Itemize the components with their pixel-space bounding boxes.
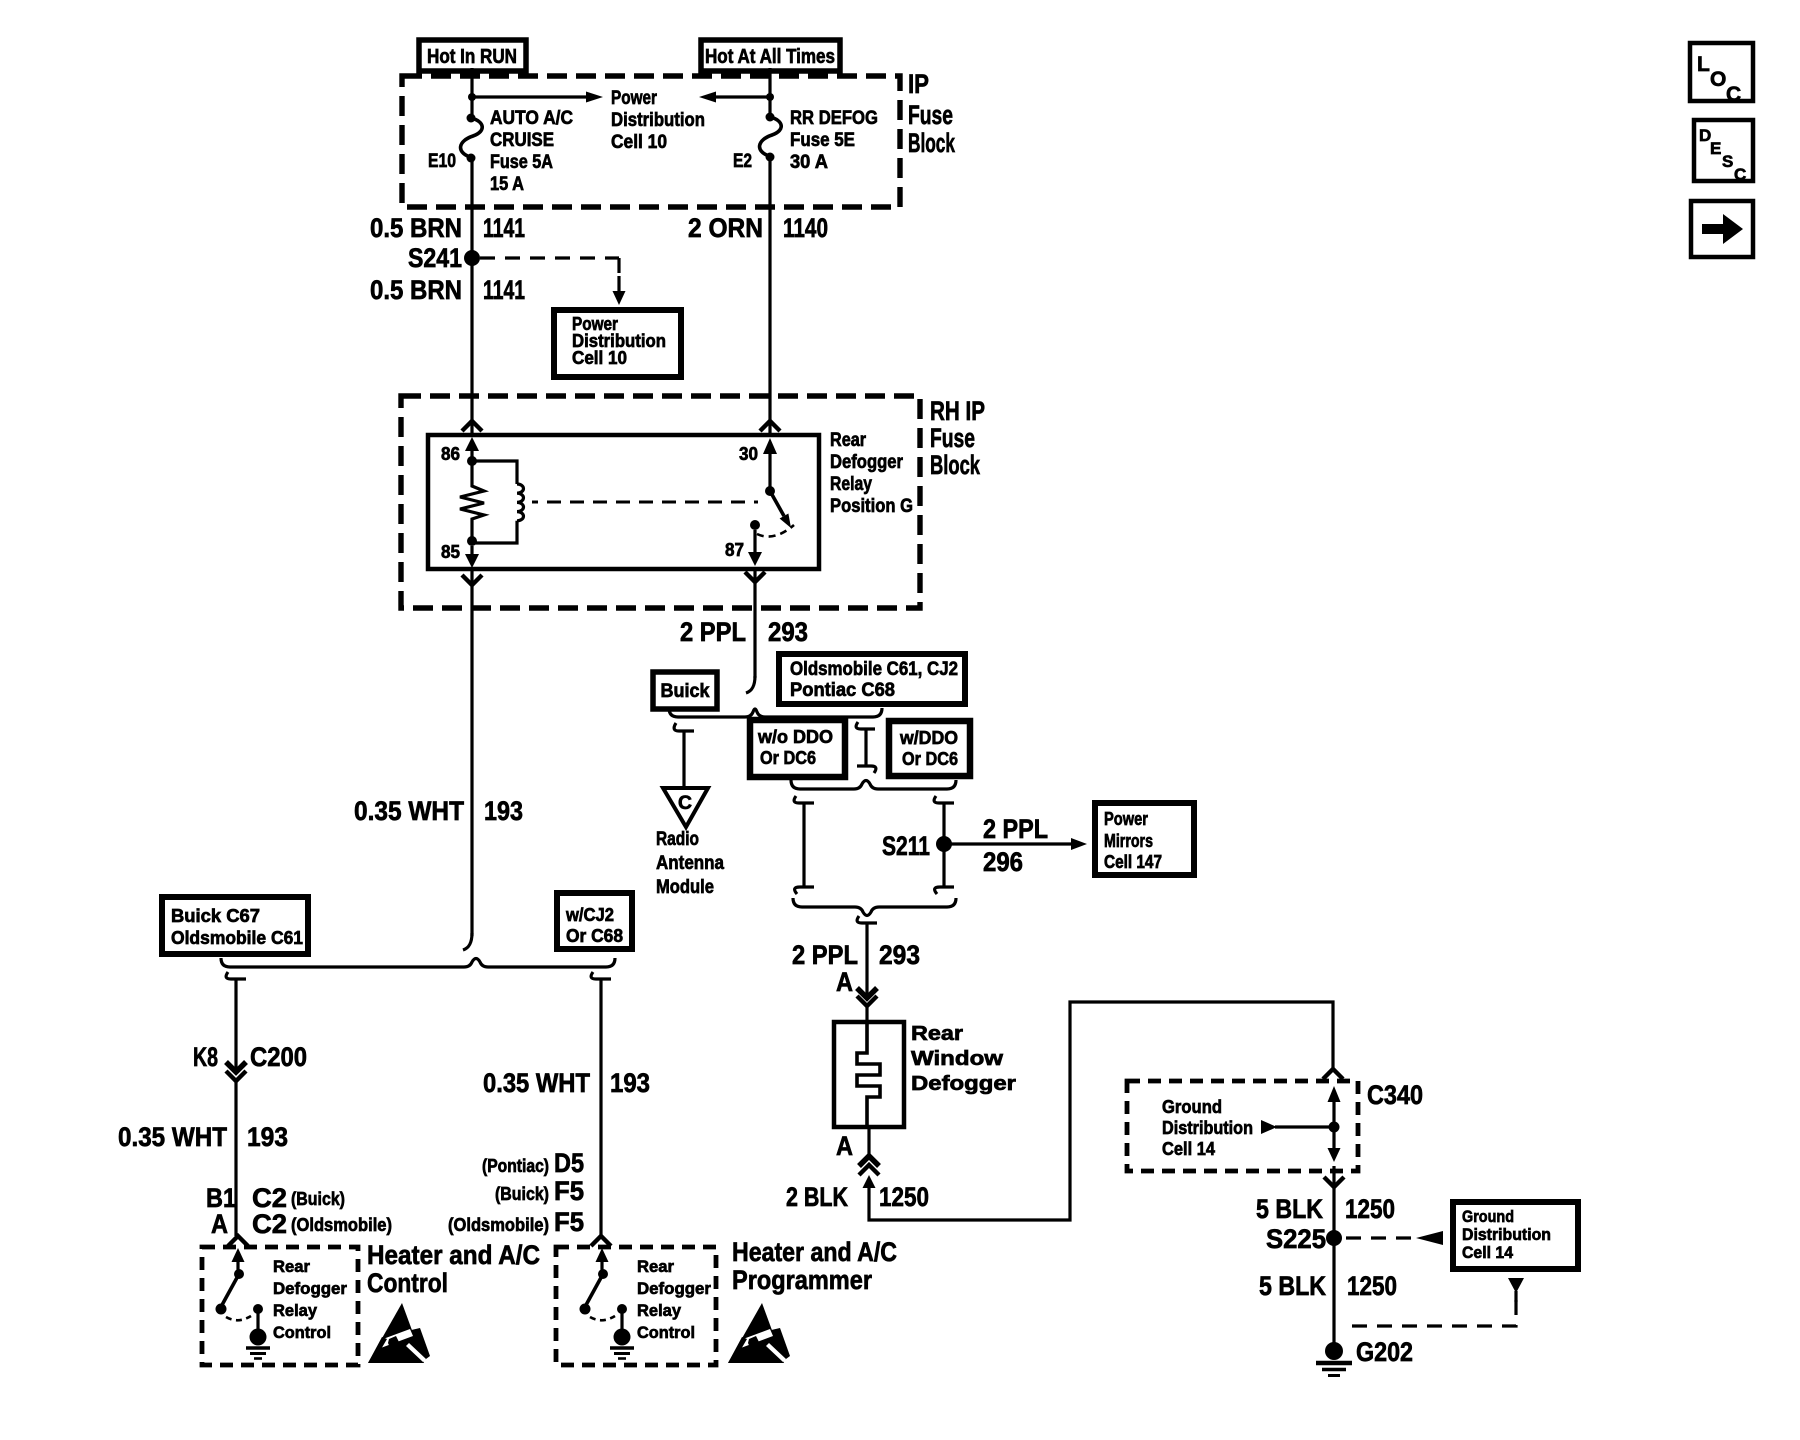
svg-text:Heater and A/C: Heater and A/C	[367, 1240, 540, 1270]
defogger heating element	[857, 1022, 880, 1127]
svg-text:Heater and A/C: Heater and A/C	[732, 1237, 897, 1267]
svg-text:Cell 147: Cell 147	[1104, 852, 1162, 872]
pin 87 terminal arrow	[748, 530, 762, 566]
svg-text:K8: K8	[193, 1042, 218, 1072]
svg-text:193: 193	[484, 796, 523, 826]
svg-text:IP: IP	[908, 69, 929, 99]
svg-text:C2: C2	[252, 1209, 287, 1239]
label 2 PPL 293 (to defogger)	[792, 940, 920, 970]
svg-text:(Oldsmobile): (Oldsmobile)	[448, 1215, 549, 1235]
svg-text:Block: Block	[908, 128, 956, 158]
svg-text:Cell 10: Cell 10	[611, 132, 667, 153]
svg-text:Programmer: Programmer	[732, 1265, 872, 1295]
terminal arrow up (ground wire into defogger)	[863, 1175, 876, 1188]
svg-text:2 ORN: 2 ORN	[688, 213, 763, 243]
label Rear Defogger Relay Position G	[830, 430, 913, 517]
ground distribution Cell 14 dashed box (C340)	[1127, 1081, 1358, 1171]
fuse E2 (RR DEFOG Fuse 5E 30A)	[760, 113, 782, 162]
svg-text:Power: Power	[611, 88, 657, 109]
junction node right	[766, 93, 774, 101]
svg-text:Oldsmobile C61, CJ2: Oldsmobile C61, CJ2	[790, 659, 958, 680]
heater and A/C programmer dashed box	[556, 1247, 716, 1365]
Power Mirrors Cell 147 reference box	[1095, 803, 1194, 875]
label RH IP Fuse Block	[930, 396, 985, 480]
svg-text:Antenna: Antenna	[656, 853, 724, 874]
svg-text:Or DC6: Or DC6	[760, 748, 816, 768]
svg-text:(Buick): (Buick)	[291, 1189, 345, 1209]
label Heater and A/C Control	[367, 1240, 540, 1298]
connector brace C67/C61/C68	[221, 958, 615, 967]
wire Hot In RUN down to fuse E10	[470, 68, 473, 118]
svg-text:Position G: Position G	[830, 496, 913, 517]
splice S225	[1266, 1224, 1342, 1254]
dashed reference wire from S241	[480, 258, 619, 274]
svg-text:w/CJ2: w/CJ2	[565, 905, 614, 925]
wire defogger bottom to connector	[867, 1127, 870, 1157]
svg-text:A: A	[836, 1131, 853, 1161]
svg-text:A: A	[211, 1209, 228, 1239]
chevron connector at relay pin 86	[462, 421, 482, 431]
label IP Fuse Block	[908, 69, 956, 158]
label Rear Defogger Relay Control (right)	[637, 1257, 711, 1342]
svg-text:Hot In RUN: Hot In RUN	[427, 46, 517, 68]
svg-text:Power: Power	[1104, 809, 1148, 829]
svg-text:1250: 1250	[879, 1182, 929, 1212]
Ground Distribution Cell 14 reference box (right)	[1453, 1202, 1578, 1269]
svg-text:86: 86	[441, 444, 460, 464]
radio antenna module terminal C triangle	[663, 788, 708, 827]
svg-text:Distribution: Distribution	[1462, 1225, 1551, 1244]
svg-text:O: O	[1710, 68, 1726, 91]
arrow to Power Distribution Cell 10 (left)	[699, 92, 770, 103]
svg-text:Fuse 5A: Fuse 5A	[490, 152, 553, 173]
svg-text:C340: C340	[1367, 1080, 1423, 1110]
relay switch blade	[770, 491, 791, 528]
w/o DDO variant wire with connector ends	[794, 796, 814, 894]
svg-text:Oldsmobile C61: Oldsmobile C61	[171, 928, 303, 948]
LOC icon box	[1690, 43, 1753, 106]
chevron below C340	[1324, 1177, 1344, 1187]
svg-text:193: 193	[610, 1068, 650, 1098]
svg-text:85: 85	[441, 542, 460, 562]
svg-text:193: 193	[247, 1122, 288, 1152]
connector half left branch	[226, 972, 246, 1040]
svg-text:Distribution: Distribution	[611, 110, 705, 131]
svg-text:Rear: Rear	[911, 1023, 963, 1045]
wire pin 85 down to C67/C61 connector brace	[463, 569, 472, 950]
Power Distribution Cell 10 reference box	[554, 310, 681, 377]
label 0.5 BRN 1141 (below S241)	[370, 275, 525, 305]
label 0.35 WHT 193 (left branch)	[118, 1122, 288, 1152]
relay switch travel dashed arc	[757, 525, 794, 537]
terminal arrow up inside C340	[1328, 1086, 1341, 1127]
svg-text:Rear: Rear	[273, 1257, 310, 1276]
svg-text:0.35 WHT: 0.35 WHT	[483, 1068, 590, 1098]
reference arrow to wire	[1261, 1120, 1329, 1134]
label Ground Distribution Cell 14 (C340 box)	[1162, 1097, 1253, 1159]
junction node C340	[1329, 1122, 1340, 1133]
svg-text:Defogger: Defogger	[637, 1279, 711, 1298]
svg-text:0.35 WHT: 0.35 WHT	[354, 796, 464, 826]
splice S211	[882, 831, 952, 861]
svg-text:2 PPL: 2 PPL	[680, 617, 746, 647]
svg-text:S241: S241	[408, 243, 462, 273]
svg-text:87: 87	[725, 540, 744, 560]
svg-text:Pontiac C68: Pontiac C68	[790, 680, 895, 701]
svg-text:AUTO A/C: AUTO A/C	[490, 108, 573, 129]
chevron below relay pin 87	[745, 572, 765, 582]
svg-text:Control: Control	[273, 1323, 331, 1342]
svg-text:C: C	[678, 793, 692, 814]
label 0.35 WHT 193 (right branch)	[483, 1068, 650, 1098]
svg-text:Rear: Rear	[637, 1257, 674, 1276]
Buick tag box	[653, 672, 717, 709]
IP fuse block dashed box	[402, 76, 900, 207]
svg-text:1141: 1141	[483, 213, 525, 243]
svg-text:S211: S211	[882, 831, 930, 861]
label 2 PPL 296	[983, 814, 1048, 877]
connector half to radio antenna module	[674, 723, 694, 788]
wire pin 87 down to Buick/Olds connector	[746, 569, 755, 693]
svg-text:w/o DDO: w/o DDO	[757, 727, 833, 747]
terminal labels B1 C2 (Buick)	[206, 1183, 345, 1213]
svg-text:1141: 1141	[483, 275, 525, 305]
rear window defogger box	[834, 1022, 904, 1127]
chevron into heater A/C programmer	[591, 1236, 611, 1246]
svg-text:Fuse: Fuse	[908, 100, 953, 130]
svg-text:5 BLK: 5 BLK	[1259, 1271, 1326, 1301]
svg-text:293: 293	[879, 940, 920, 970]
pin 85 terminal arrow	[465, 546, 479, 568]
svg-text:Relay: Relay	[830, 474, 872, 495]
svg-text:(Oldsmobile): (Oldsmobile)	[291, 1215, 392, 1235]
label RR DEFOG Fuse 5E 30 A	[790, 108, 878, 173]
svg-text:F5: F5	[554, 1176, 584, 1206]
label 0.35 WHT 193 (left main wire)	[354, 796, 523, 826]
rear defogger relay box	[428, 435, 819, 569]
svg-text:S: S	[1722, 152, 1733, 171]
label 2 ORN 1140	[688, 213, 828, 243]
arrow to Power Distribution Cell 10 (right)	[472, 92, 603, 103]
svg-text:Relay: Relay	[637, 1301, 682, 1320]
in-line connector C200	[226, 1040, 246, 1236]
svg-text:30: 30	[739, 444, 758, 464]
wire S241 down to relay pin 86	[470, 258, 473, 433]
relay coil (inductor)	[472, 461, 524, 543]
svg-text:Module: Module	[656, 877, 714, 898]
svg-text:Cell 14: Cell 14	[1462, 1243, 1514, 1262]
pin 30 terminal arrow	[763, 438, 777, 491]
connector half below merge brace	[857, 916, 877, 944]
variant merge brace	[793, 898, 956, 916]
svg-text:Fuse: Fuse	[930, 423, 975, 453]
svg-text:CRUISE: CRUISE	[490, 130, 554, 151]
label Heater and A/C Programmer	[732, 1237, 897, 1295]
in-line connector halves between DDO tags	[856, 722, 876, 773]
connector brace C61/C68	[669, 708, 882, 717]
relay resistor	[460, 461, 484, 541]
svg-text:Buick: Buick	[661, 681, 710, 702]
svg-text:0.5 BRN: 0.5 BRN	[370, 275, 462, 305]
wire S211 to Power Mirrors	[944, 838, 1087, 850]
chevron into heater A/C control	[228, 1236, 248, 1246]
svg-text:Block: Block	[930, 450, 981, 480]
svg-text:1250: 1250	[1347, 1271, 1397, 1301]
label 5 BLK 1250 (above S225)	[1256, 1194, 1395, 1224]
Oldsmobile C61 CJ2 / Pontiac C68 tag box	[779, 654, 965, 704]
svg-text:F5: F5	[554, 1207, 584, 1237]
svg-text:C200: C200	[250, 1042, 307, 1072]
connector chevrons below defogger	[859, 1156, 879, 1175]
svg-text:Window: Window	[911, 1048, 1004, 1070]
svg-text:Or C68: Or C68	[566, 926, 623, 946]
svg-text:5 BLK: 5 BLK	[1256, 1194, 1323, 1224]
svg-text:w/DDO: w/DDO	[899, 728, 958, 748]
w/o DDO Or DC6 tag box	[750, 720, 845, 777]
svg-text:296: 296	[983, 847, 1023, 877]
chevron connector C340	[1323, 1069, 1343, 1079]
svg-text:Cell 10: Cell 10	[572, 348, 627, 368]
w/DDO Or DC6 tag box	[889, 721, 970, 776]
svg-text:Control: Control	[367, 1268, 448, 1298]
svg-text:S225: S225	[1266, 1224, 1326, 1254]
reference arrow below ground distribution box	[1508, 1278, 1524, 1302]
label Radio Antenna Module	[656, 829, 724, 898]
RH IP fuse block dashed box	[401, 396, 920, 608]
splice S241	[408, 243, 480, 273]
svg-text:(Buick): (Buick)	[495, 1184, 549, 1204]
Hot At All Times box	[701, 40, 840, 71]
label Rear Defogger Relay Control (left)	[273, 1257, 347, 1342]
dashed reference wire to G202	[1348, 1300, 1516, 1326]
DESC icon box	[1694, 120, 1753, 184]
label 2 BLK 1250	[786, 1182, 929, 1212]
rear defogger relay control switch (heater A/C control)	[216, 1248, 271, 1359]
svg-text:E: E	[1710, 139, 1721, 158]
terminal labels A C2 (Oldsmobile)	[211, 1209, 392, 1239]
svg-text:1140: 1140	[783, 213, 828, 243]
svg-text:Relay: Relay	[273, 1301, 318, 1320]
svg-text:Defogger: Defogger	[911, 1073, 1016, 1095]
relay switch pivot node	[765, 486, 775, 496]
svg-text:2 PPL: 2 PPL	[792, 940, 858, 970]
terminal labels (Pontiac) D5	[482, 1148, 584, 1178]
ground wire run to C340	[869, 1002, 1333, 1220]
svg-text:Mirrors: Mirrors	[1104, 831, 1153, 851]
label K8 C200	[193, 1042, 307, 1072]
svg-text:D5: D5	[554, 1148, 584, 1178]
svg-text:Defogger: Defogger	[273, 1279, 347, 1298]
svg-text:2 BLK: 2 BLK	[786, 1182, 848, 1212]
wire down to rear window defogger	[865, 944, 868, 998]
relay coil bottom node	[467, 536, 477, 546]
arrow icon box	[1691, 201, 1753, 257]
svg-text:(Pontiac): (Pontiac)	[482, 1156, 549, 1176]
chevron below relay pin 85	[462, 575, 482, 585]
heater and A/C control dashed box	[202, 1247, 358, 1365]
svg-text:0.5 BRN: 0.5 BRN	[370, 213, 462, 243]
w/CJ2 Or C68 tag box	[557, 893, 632, 949]
svg-text:2 PPL: 2 PPL	[983, 814, 1048, 844]
svg-text:Radio: Radio	[656, 829, 699, 850]
label 2 PPL 293 (below relay)	[680, 617, 808, 647]
wire Hot At All Times down to fuse E2	[768, 68, 771, 117]
svg-text:RR DEFOG: RR DEFOG	[790, 108, 878, 129]
svg-text:Hot At All Times: Hot At All Times	[705, 46, 835, 68]
svg-text:15 A: 15 A	[490, 174, 524, 195]
terminal labels (Oldsmobile) F5	[448, 1207, 584, 1237]
svg-text:Fuse 5E: Fuse 5E	[790, 130, 855, 151]
relay switch contact node	[750, 520, 760, 530]
relay coil top node	[467, 456, 477, 466]
pin 86 terminal arrow	[465, 437, 479, 461]
junction node left	[468, 93, 476, 101]
ESD sensitive device symbol (left)	[368, 1303, 430, 1363]
svg-text:1250: 1250	[1345, 1194, 1395, 1224]
label 5 BLK 1250 (below S225)	[1259, 1271, 1397, 1301]
svg-text:30 A: 30 A	[790, 152, 828, 173]
svg-text:Buick C67: Buick C67	[171, 906, 260, 926]
label Power Distribution Cell 10	[611, 88, 705, 153]
ESD sensitive device symbol (right)	[728, 1303, 790, 1363]
chevron connector at relay pin 30	[760, 421, 780, 431]
svg-text:Rear: Rear	[830, 430, 867, 451]
dashed reference wire S225 to ground distribution	[1346, 1231, 1443, 1245]
svg-text:RH IP: RH IP	[930, 396, 985, 426]
wire C340 down to G202	[1332, 1166, 1335, 1343]
w/DDO variant wire with connector ends	[934, 796, 954, 894]
svg-text:C: C	[1726, 83, 1741, 106]
Buick C67 Oldsmobile C61 tag box	[162, 897, 308, 954]
terminal arrow down inside C340	[1328, 1127, 1341, 1162]
svg-text:Ground: Ground	[1162, 1097, 1222, 1117]
svg-text:Distribution: Distribution	[1162, 1118, 1253, 1138]
svg-text:C: C	[1734, 165, 1746, 184]
connector half right branch	[591, 972, 611, 1236]
svg-text:293: 293	[768, 617, 808, 647]
connector chevrons into defogger	[857, 988, 877, 1022]
variant split brace (below DDO tags)	[791, 780, 956, 789]
wire fuse E2 down to relay pin 30	[768, 157, 771, 433]
Hot In RUN box	[419, 40, 526, 71]
wire fuse E10 down to S241	[470, 158, 473, 253]
relay actuation dashed line	[532, 501, 758, 504]
svg-text:Or DC6: Or DC6	[902, 749, 958, 769]
svg-text:0.35 WHT: 0.35 WHT	[118, 1122, 227, 1152]
svg-text:L: L	[1697, 53, 1710, 76]
svg-text:E2: E2	[733, 151, 752, 172]
terminal labels (Buick) F5	[495, 1176, 584, 1206]
label Rear Window Defogger	[911, 1023, 1016, 1095]
svg-text:A: A	[836, 967, 853, 997]
label 0.5 BRN 1141 (above S241)	[370, 213, 525, 243]
label AUTO A/C CRUISE Fuse 5A 15 A	[490, 108, 573, 195]
svg-text:Ground: Ground	[1462, 1207, 1514, 1226]
svg-text:Defogger: Defogger	[830, 452, 904, 473]
ground G202	[1316, 1342, 1352, 1376]
svg-text:Cell 14: Cell 14	[1162, 1139, 1215, 1159]
svg-text:Control: Control	[637, 1323, 695, 1342]
arrow down into Power Distribution Cell 10 box	[613, 276, 626, 305]
rear defogger relay control switch (programmer)	[580, 1248, 635, 1359]
fuse E10 (AUTO A/C CRUISE Fuse 5A 15A)	[461, 114, 483, 163]
svg-text:G202: G202	[1356, 1337, 1413, 1367]
svg-text:E10: E10	[428, 151, 456, 172]
